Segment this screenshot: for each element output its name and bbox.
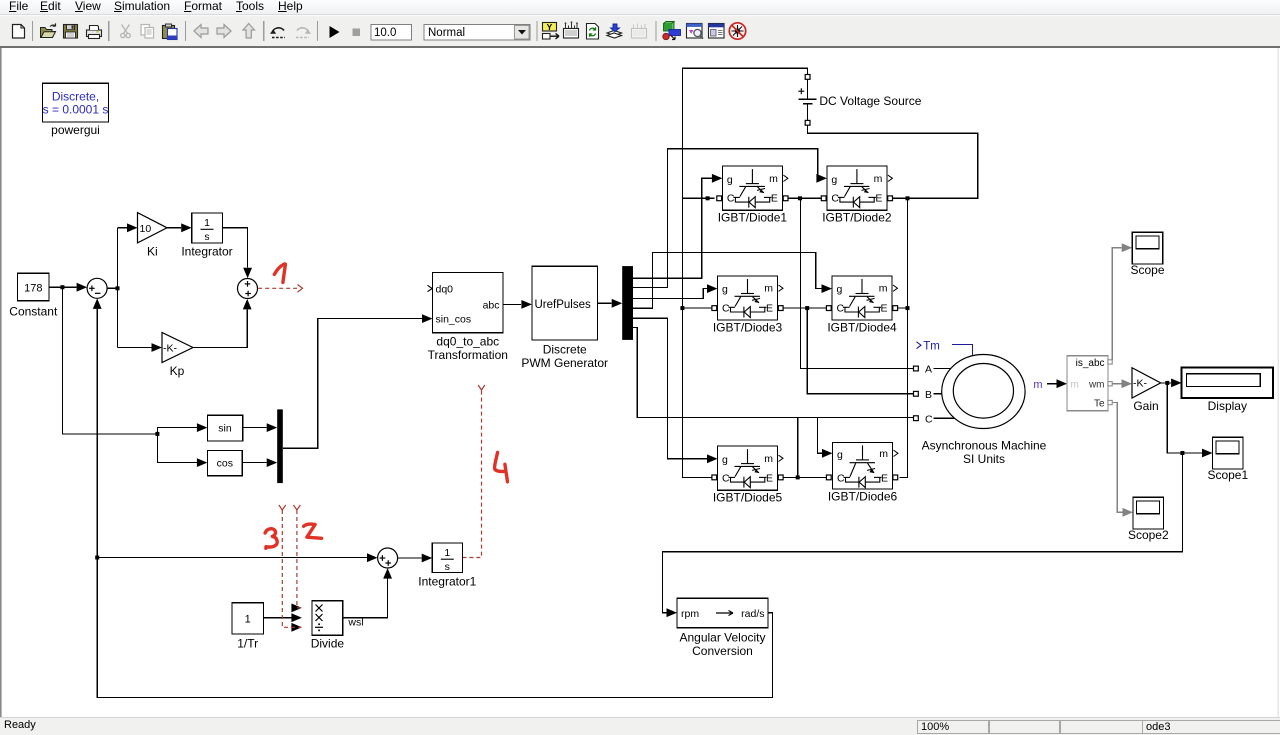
- arrowhead g1: [712, 174, 723, 183]
- port C4: [826, 306, 831, 311]
- svg-text:m: m: [769, 173, 778, 185]
- junction E2: [906, 196, 910, 200]
- port E4: [893, 306, 898, 311]
- wire DC- down to E6: [900, 198, 908, 477]
- svg-text:Tm: Tm: [923, 341, 940, 353]
- svg-text:E: E: [766, 472, 773, 484]
- wire E5 to C6: [783, 476, 826, 478]
- svg-text:PWM Generator: PWM Generator: [521, 356, 608, 370]
- IGBT/Diode6 block: [833, 442, 899, 489]
- svg-text:m: m: [879, 448, 888, 460]
- icon: model explorer: [687, 24, 704, 39]
- svg-text:dq0: dq0: [436, 284, 454, 296]
- wire Sum3 to Integrator1: [398, 557, 422, 559]
- arrowhead into sin: [197, 423, 208, 432]
- wire rad/s bottom feedback: [97, 558, 772, 698]
- arrowhead into Sum1: [77, 283, 88, 292]
- Angular Velocity Conversion block: [677, 598, 768, 628]
- svg-text:Display: Display: [1208, 399, 1247, 413]
- port C1: [717, 196, 722, 201]
- icon: library browser: [663, 22, 681, 40]
- port E6: [893, 475, 898, 480]
- svg-text:Scope: Scope: [1130, 263, 1164, 277]
- svg-text:IGBT/Diode3: IGBT/Diode3: [713, 321, 783, 335]
- svg-text:g: g: [837, 449, 843, 461]
- svg-text:C: C: [925, 414, 933, 426]
- arrowhead into Kp: [152, 343, 163, 352]
- IGBT/Diode2 block: [827, 166, 893, 210]
- svg-text:DC Voltage Source: DC Voltage Source: [819, 94, 921, 108]
- svg-text:1: 1: [204, 217, 210, 229]
- svg-text:dq0_to_abc: dq0_to_abc: [436, 335, 499, 349]
- svg-text:s: s: [204, 231, 209, 243]
- wire Ki to Integrator: [167, 227, 181, 229]
- wire 1/Tr to Divide: [263, 617, 291, 619]
- arrowhead into PWM Uref: [521, 300, 532, 309]
- wire to cos: [157, 434, 197, 463]
- Asynchronous Machine block: [942, 355, 1025, 429]
- arrowhead into Demux: [612, 299, 623, 308]
- cos block: [207, 450, 242, 475]
- svg-text:IGBT/Diode2: IGBT/Diode2: [822, 211, 892, 225]
- wire Sum1 out: [107, 287, 117, 289]
- integrator block: [192, 213, 223, 243]
- svg-text:C: C: [831, 192, 839, 204]
- junction: constant branch: [60, 285, 64, 289]
- machine port C: [914, 416, 919, 421]
- svg-text:m: m: [764, 283, 773, 295]
- svg-text:C: C: [722, 302, 730, 314]
- wire Mux to dq0 sin_cos: [283, 319, 422, 449]
- svg-text:IGBT/Diode5: IGBT/Diode5: [713, 491, 783, 505]
- svg-text:SI Units: SI Units: [963, 452, 1005, 466]
- svg-text:abc: abc: [483, 299, 500, 311]
- DC Voltage Source: [798, 75, 816, 126]
- svg-text:m: m: [764, 453, 773, 465]
- port C6: [826, 475, 831, 480]
- icon: disabled tool: [632, 24, 647, 39]
- svg-text:Scope1: Scope1: [1207, 468, 1248, 482]
- port E5: [778, 475, 783, 480]
- icon: save: [64, 25, 78, 39]
- sim stop time field: [371, 25, 412, 41]
- wire DC+ rail: [682, 68, 807, 477]
- sum block Sum1 (+/-): [87, 278, 107, 298]
- wire Constant to Sum1: [49, 286, 76, 288]
- red dashed line 4 (annotation): [462, 390, 481, 558]
- arrowhead into Sum3 bottom: [383, 568, 392, 579]
- wire E3 to C4: [783, 307, 826, 309]
- icon: copy (disabled): [141, 25, 154, 39]
- svg-text:is_abc: is_abc: [1076, 358, 1105, 369]
- svg-text:Discrete,: Discrete,: [52, 90, 99, 104]
- svg-text:g: g: [831, 174, 837, 186]
- junction sin/cos split: [155, 432, 159, 436]
- svg-text:Discrete: Discrete: [543, 343, 587, 357]
- icon: stop (disabled): [353, 29, 361, 37]
- svg-text:Angular Velocity: Angular Velocity: [679, 631, 765, 645]
- svg-text:IGBT/Diode6: IGBT/Diode6: [828, 490, 898, 504]
- wire dq0 abc to PWM: [503, 303, 521, 305]
- port E3: [778, 306, 783, 311]
- svg-text:Asynchronous Machine: Asynchronous Machine: [922, 439, 1047, 453]
- wire is_abc to Scope: [1112, 248, 1121, 360]
- svg-text:powergui: powergui: [51, 123, 100, 137]
- svg-text:g: g: [727, 174, 733, 186]
- wire Integrator to Sum2: [222, 228, 247, 268]
- wire pulse5 to g5: [633, 318, 707, 459]
- svg-text:m: m: [879, 283, 888, 295]
- constant block 1/Tr: [232, 603, 263, 634]
- canvas right border: [1278, 48, 1279, 717]
- scope Scope1: [1213, 437, 1244, 469]
- port E2: [888, 196, 893, 201]
- wire stub C: [934, 417, 955, 419]
- svg-text:Y: Y: [547, 22, 553, 32]
- wire rpm to Angular Velocity Conversion: [663, 453, 1183, 613]
- arrowhead into rpm: [667, 608, 678, 617]
- arrowhead into Sum3: [367, 553, 378, 562]
- arrowhead g2: [816, 174, 827, 183]
- junction C3: [680, 306, 684, 310]
- arrowhead g5: [707, 454, 718, 463]
- svg-text:E: E: [771, 192, 778, 204]
- red dashed line 3: [282, 510, 301, 627]
- arrowhead into Sum2 bottom: [243, 299, 252, 310]
- svg-text:g: g: [837, 284, 843, 296]
- wire DC- rail: [808, 125, 978, 198]
- icon: print: [87, 26, 102, 39]
- IGBT/Diode3 block: [718, 276, 784, 320]
- svg-text:wsl: wsl: [347, 617, 363, 629]
- svg-text:Normal: Normal: [428, 27, 465, 39]
- wire to Kp: [118, 347, 152, 349]
- wire pulse2 to g2: [633, 149, 818, 288]
- junction gain out: [1165, 381, 1169, 385]
- wire PWM Pulses to Demux: [598, 302, 612, 304]
- wire to Ki: [118, 227, 128, 229]
- svg-text:C: C: [722, 472, 730, 484]
- gain Kp: [162, 332, 193, 362]
- wire E1 to C2: [788, 197, 821, 199]
- svg-text:E: E: [875, 192, 882, 204]
- svg-text:g: g: [722, 454, 728, 466]
- svg-text:Gain: Gain: [1133, 399, 1158, 413]
- arrowhead g4: [822, 284, 833, 293]
- svg-text:sin_cos: sin_cos: [436, 314, 472, 326]
- red digit 3: [265, 529, 277, 549]
- arrowhead into Scope: [1122, 243, 1133, 252]
- wire speed feedback up to Sum1: [96, 309, 98, 558]
- wire cos to Mux: [242, 462, 267, 464]
- icon: forward (disabled): [217, 25, 231, 38]
- IGBT/Diode5 block: [718, 446, 784, 490]
- svg-text:cos: cos: [217, 458, 233, 470]
- red digit 2: [304, 524, 322, 538]
- svg-text:g: g: [722, 284, 728, 296]
- red digit 4: [495, 452, 508, 481]
- icon: paste: [163, 24, 178, 40]
- arrowhead into Divide in1: [291, 604, 302, 613]
- junction phase B: [805, 306, 809, 310]
- wire Tm stub: [952, 345, 973, 356]
- wire pulse1 to g1: [633, 178, 712, 278]
- svg-text:Divide: Divide: [311, 637, 345, 651]
- sum block Sum3 (+/+): [378, 548, 398, 568]
- svg-text:C: C: [837, 472, 845, 484]
- svg-text:rpm: rpm: [681, 608, 699, 620]
- wire wm to Gain: [1112, 383, 1121, 385]
- wire feedback to Sum3: [97, 557, 367, 559]
- red dashed arrow from Sum2 (annotation 1): [258, 287, 297, 289]
- arrowhead into Gain: [1122, 379, 1133, 388]
- svg-text:Conversion: Conversion: [692, 644, 753, 658]
- wire pulse3 to g3: [633, 289, 707, 299]
- junction to conversion: [1180, 451, 1184, 455]
- svg-text:C: C: [727, 192, 735, 204]
- scope Scope: [1132, 232, 1163, 264]
- integrator1 block: [432, 543, 462, 573]
- svg-text:-K-: -K-: [163, 342, 178, 354]
- wire stub A: [934, 368, 951, 370]
- svg-text:C: C: [837, 302, 845, 314]
- svg-text:E: E: [881, 472, 888, 484]
- icon: new model: [13, 25, 25, 39]
- arrowhead into Integrator1: [422, 554, 433, 563]
- svg-text:Te: Te: [1094, 398, 1105, 409]
- icon: up (disabled): [243, 24, 255, 39]
- sin block: [207, 415, 242, 441]
- svg-text:IGBT/Diode1: IGBT/Diode1: [718, 211, 788, 225]
- wire phase C to machine: [798, 418, 914, 478]
- svg-text:B: B: [925, 389, 932, 401]
- icon: redo (disabled): [296, 28, 311, 38]
- wire Kp to Sum2: [193, 309, 247, 347]
- svg-text:Constant: Constant: [9, 305, 58, 319]
- svg-text:A: A: [925, 364, 932, 376]
- svg-text:sin: sin: [218, 423, 232, 435]
- arrowhead into Sum1 bottom: [93, 298, 102, 309]
- arrowhead into Scope1: [1202, 449, 1213, 458]
- wire E2 to rail: [893, 197, 908, 199]
- svg-text:Scope2: Scope2: [1128, 528, 1169, 542]
- wire stub B: [934, 393, 942, 395]
- port E1: [783, 196, 788, 201]
- wire Gain to Display: [1161, 382, 1171, 384]
- IGBT/Diode1 block: [722, 166, 788, 210]
- wire phase B to machine: [807, 308, 913, 394]
- wire DC+ to C3: [682, 307, 712, 309]
- display block: [1182, 368, 1273, 398]
- sim mode combo: [424, 25, 530, 41]
- red dashed line 2: [297, 510, 302, 608]
- icon: highlight remove (red): [729, 23, 745, 39]
- icon: open: [41, 23, 56, 37]
- arrowhead into Mux in2: [267, 458, 278, 467]
- arrowhead into Bus Selector: [1057, 379, 1068, 388]
- svg-text:10: 10: [140, 223, 152, 235]
- machine Tm input (unconnected): [917, 341, 940, 353]
- svg-text:Kp: Kp: [170, 364, 185, 378]
- svg-text:rad/s: rad/s: [741, 608, 764, 620]
- toolbar: [0, 15, 1280, 46]
- scope Scope2: [1133, 497, 1164, 529]
- sum block Sum2 (+/+): [238, 279, 258, 299]
- svg-text:E: E: [766, 302, 773, 314]
- svg-text:-K-: -K-: [1133, 378, 1148, 390]
- canvas left border: [0, 48, 2, 717]
- machine port A: [914, 366, 919, 371]
- wire E4 to rail: [898, 307, 908, 309]
- wire pulse6 to g6: [633, 328, 822, 454]
- icon: update diagram: [587, 24, 599, 40]
- machine port B: [914, 391, 919, 396]
- icon: model browser toggle: [709, 24, 725, 39]
- arrowhead into Ki: [127, 223, 138, 232]
- wire pulse4 to g4: [633, 252, 822, 308]
- wire Te to Scope2: [1112, 403, 1122, 513]
- svg-text:Integrator: Integrator: [181, 245, 232, 259]
- icon: start simulation: [330, 26, 340, 38]
- icon: back (disabled): [194, 25, 208, 38]
- svg-text:1: 1: [444, 547, 450, 559]
- svg-text:1: 1: [245, 614, 251, 626]
- svg-text:E: E: [880, 302, 887, 314]
- arrowhead into Divide in3: [291, 623, 302, 632]
- junction feedback: [95, 556, 99, 560]
- svg-text:1/Tr: 1/Tr: [237, 637, 258, 651]
- svg-text:s: s: [445, 561, 450, 573]
- arrowhead into Mux in1: [267, 423, 278, 432]
- Discrete PWM Generator block: [532, 266, 598, 340]
- dq0_to_abc Transformation block: [428, 273, 504, 333]
- junction phase C: [796, 475, 800, 479]
- gain block (Gain): [1132, 368, 1161, 398]
- wire down to Scope1: [1167, 383, 1202, 453]
- arrowhead into Sum2 top: [243, 268, 252, 279]
- bus selector (machine measurements): [1067, 356, 1112, 411]
- junction E4: [906, 306, 910, 310]
- svg-text:Integrator1: Integrator1: [418, 575, 476, 589]
- menu bar: [0, 0, 1280, 15]
- icon: undo: [270, 28, 285, 38]
- svg-text:Ki: Ki: [147, 245, 158, 259]
- wire sin to Mux: [243, 427, 267, 429]
- mux (sin/cos): [277, 409, 283, 483]
- arrowhead g6: [822, 449, 833, 458]
- wire to sin: [157, 428, 197, 434]
- arrowhead into Divide in2: [291, 613, 302, 622]
- arrowhead g3: [707, 284, 718, 293]
- arrowhead into Integrator: [181, 223, 192, 232]
- status bar: [0, 717, 1280, 735]
- wire Divide wsl to Sum3: [343, 579, 388, 618]
- svg-text:s = 0.0001 s: s = 0.0001 s: [43, 103, 109, 117]
- IGBT/Diode4 block: [832, 276, 898, 320]
- wire phase A to machine: [800, 198, 913, 368]
- wire DC+ to C1: [682, 197, 714, 199]
- wire branch down to sin/cos: [62, 287, 157, 434]
- arrowhead into sin_cos: [422, 314, 433, 323]
- arrowhead into Scope2: [1123, 508, 1134, 517]
- divide block: [312, 601, 343, 636]
- port C3: [712, 306, 717, 311]
- constant block 178: [18, 273, 50, 300]
- junction C1: [706, 196, 710, 200]
- port C2: [821, 196, 826, 201]
- svg-text:IGBT/Diode4: IGBT/Diode4: [827, 321, 897, 335]
- icon: library link options: [543, 22, 560, 39]
- wire vertical PI split: [117, 228, 119, 348]
- svg-text:m: m: [874, 173, 883, 185]
- arrowhead into Display: [1171, 379, 1182, 388]
- red digit 1: [274, 264, 285, 283]
- icon: cut (disabled): [121, 25, 131, 38]
- wire machine m to Bus Selector: [1047, 383, 1057, 385]
- svg-text:Transformation: Transformation: [428, 348, 508, 362]
- svg-text:m: m: [1033, 379, 1042, 391]
- gain Ki: [138, 213, 168, 243]
- icon: build all: [607, 24, 622, 38]
- icon: model configuration: [564, 21, 579, 38]
- svg-text:UrefPulses: UrefPulses: [535, 299, 591, 311]
- powergui block: [42, 83, 108, 122]
- arrowhead into cos: [197, 458, 208, 467]
- svg-text:m: m: [1071, 380, 1079, 391]
- port C5: [712, 475, 717, 480]
- svg-text:178: 178: [24, 283, 42, 295]
- junction PI split: [116, 286, 120, 290]
- junction phase A: [798, 196, 802, 200]
- svg-text:wm: wm: [1088, 380, 1105, 391]
- svg-text:10.0: 10.0: [374, 27, 396, 39]
- demux (pulses): [622, 266, 633, 340]
